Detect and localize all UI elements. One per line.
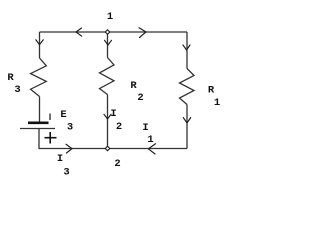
svg-text:R: R [7, 72, 14, 84]
svg-text:1: 1 [214, 97, 220, 109]
svg-text:3: 3 [67, 122, 73, 134]
svg-text:3: 3 [63, 167, 69, 179]
svg-text:I: I [110, 108, 116, 120]
svg-text:2: 2 [137, 92, 143, 104]
svg-text:R: R [130, 80, 137, 92]
svg-text:1: 1 [107, 11, 113, 23]
svg-text:R: R [208, 85, 215, 97]
svg-text:I: I [57, 153, 63, 165]
svg-text:I: I [142, 122, 148, 134]
svg-text:E: E [60, 109, 66, 121]
svg-text:1: 1 [147, 134, 153, 146]
svg-text:3: 3 [14, 84, 20, 96]
svg-text:2: 2 [116, 121, 122, 133]
svg-text:2: 2 [114, 158, 120, 170]
